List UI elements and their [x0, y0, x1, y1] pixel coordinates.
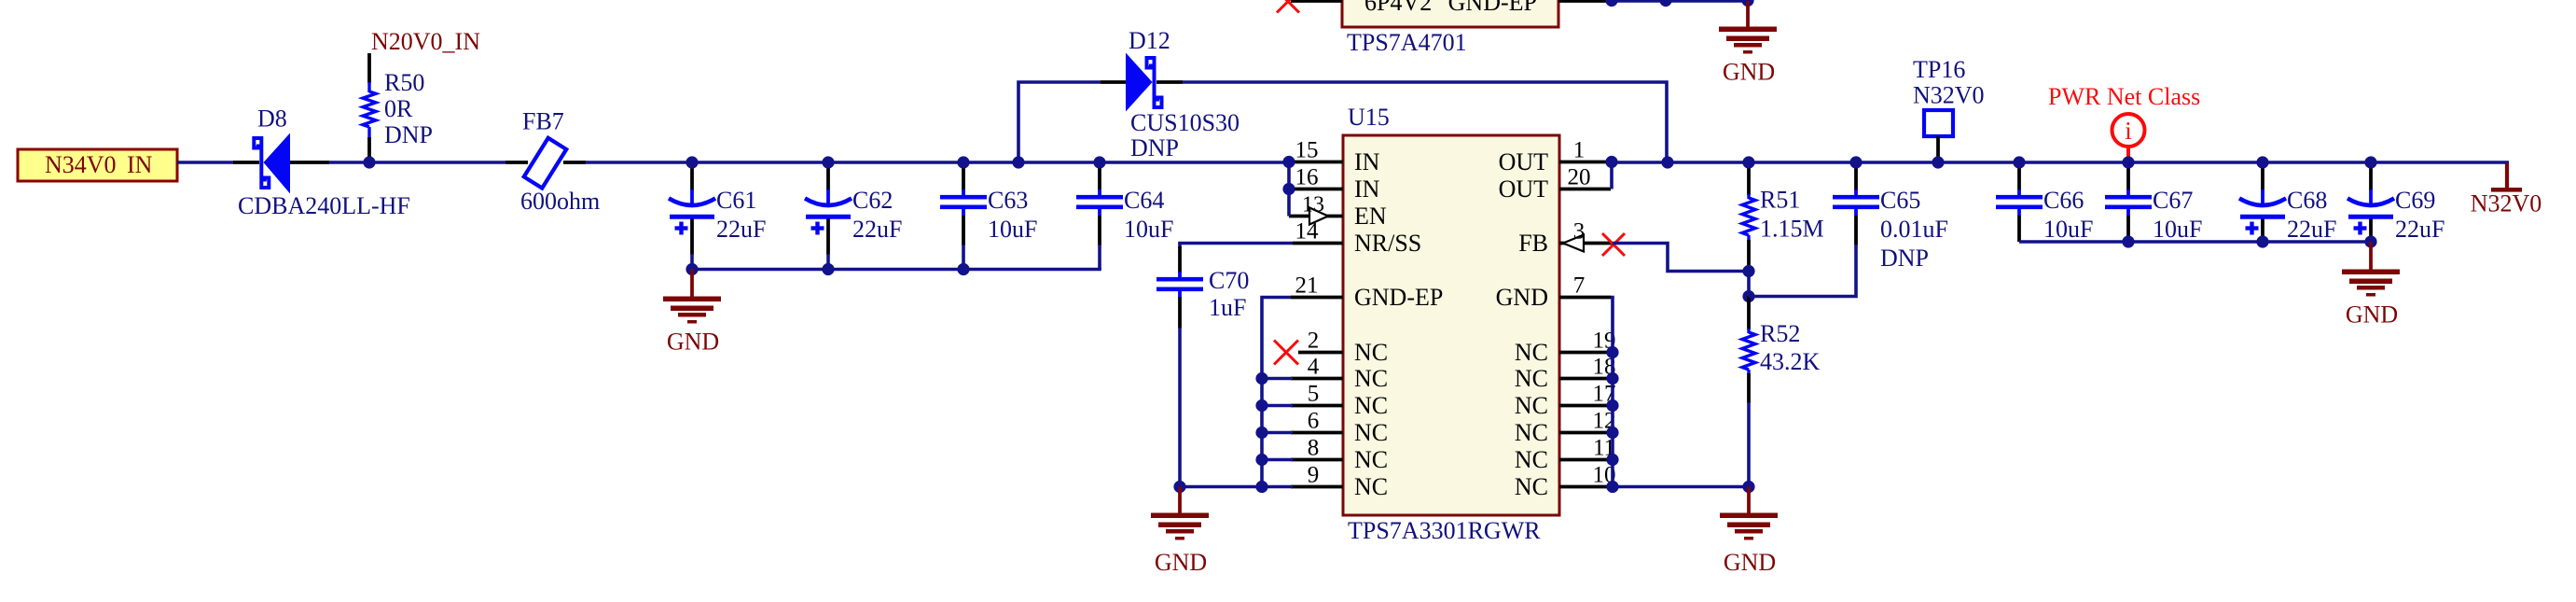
pin 20 OUT of U15 — [1499, 165, 1611, 203]
junction pin 1 / output rail — [1605, 156, 1617, 168]
net label N34V0_IN (input port) — [18, 149, 177, 181]
svg-text:NC: NC — [1515, 392, 1548, 419]
wire GND pin 7 / NC bus (right) — [1611, 298, 1613, 487]
wire stub NC pin 4 — [1262, 377, 1293, 381]
svg-text:C63: C63 — [988, 187, 1028, 214]
pin 16 IN of U15 — [1293, 165, 1380, 203]
capacitor C63 10uF — [940, 163, 1037, 270]
svg-text:9: 9 — [1308, 463, 1320, 488]
pin 17 NC of U15 — [1515, 382, 1616, 420]
svg-text:C66: C66 — [2043, 187, 2084, 214]
svg-text:22uF: 22uF — [716, 216, 766, 243]
svg-text:NR/SS: NR/SS — [1354, 230, 1421, 257]
svg-text:10uF: 10uF — [2153, 216, 2202, 243]
junction C63 / ground bus — [957, 263, 969, 275]
svg-text:TPS7A4701: TPS7A4701 — [1347, 29, 1467, 56]
pin 3 FB of U15 — [1518, 219, 1613, 258]
junction pin 16 tie — [1282, 183, 1295, 195]
svg-text:NC: NC — [1515, 339, 1548, 366]
wire FB to divider — [1613, 244, 1749, 272]
ferrite bead FB7 600ohm — [506, 108, 600, 216]
junction C69 / ground bus (output) — [2364, 235, 2376, 247]
svg-text:0R: 0R — [384, 95, 413, 122]
junction NC pin 5 (left bus) — [1255, 399, 1267, 412]
svg-text:GND: GND — [1723, 59, 1775, 86]
svg-text:1: 1 — [1573, 138, 1586, 163]
pin 13 EN of U15 — [1289, 193, 1387, 231]
junction NC pin 6 (left bus) — [1255, 427, 1267, 439]
svg-text:8: 8 — [1308, 436, 1320, 461]
svg-text:DNP: DNP — [1880, 245, 1929, 272]
svg-text:R52: R52 — [1760, 320, 1800, 347]
junction NC pin 18 (right bus) — [1606, 372, 1618, 385]
wire stub NC pin 9 — [1262, 485, 1293, 489]
pin GND-EP of TPS7A4701 (right pin) — [1558, 0, 1611, 3]
wire IN pins tie (15-16-EN) — [1287, 162, 1291, 217]
wire divider mid node — [1747, 272, 1751, 297]
svg-text:NC: NC — [1515, 419, 1548, 446]
test point TP16 N32V0 — [1913, 56, 1985, 161]
wire NC bus to R52 ground — [1613, 485, 1749, 489]
svg-text:NC: NC — [1354, 419, 1388, 446]
wire stub NC pin 5 — [1262, 404, 1293, 408]
junction C65 return / divider — [1742, 290, 1754, 302]
pin 21 GND-EP of U15 — [1291, 273, 1443, 312]
svg-text:TP16: TP16 — [1913, 56, 1965, 83]
junction C68 / output rail — [2256, 156, 2268, 168]
svg-text:C65: C65 — [1880, 187, 1920, 214]
wire FB7 to input cap bank — [586, 161, 1289, 164]
pin 4 NC of U15 — [1291, 355, 1388, 393]
svg-text:C69: C69 — [2395, 187, 2435, 214]
junction C69 / output rail — [2364, 156, 2376, 168]
no-ERC marker on FB pin 3 — [1602, 233, 1625, 256]
wire GND-EP / NC bus (left) — [1262, 298, 1291, 487]
pin 1 OUT of U15 — [1499, 138, 1611, 176]
svg-text:NC: NC — [1515, 446, 1548, 473]
pin 12 NC of U15 — [1515, 409, 1616, 447]
svg-text:4: 4 — [1308, 355, 1320, 380]
pin 18 NC of U15 — [1515, 355, 1616, 393]
svg-text:13: 13 — [1302, 193, 1324, 217]
resistor R50 0R DNP — [363, 53, 433, 161]
junction NC pin 17 (right bus) — [1606, 399, 1618, 412]
pin 10 NC of U15 — [1515, 463, 1616, 501]
svg-text:R51: R51 — [1760, 187, 1800, 214]
svg-text:OUT: OUT — [1499, 148, 1549, 175]
svg-text:NC: NC — [1354, 473, 1388, 500]
svg-text:FB: FB — [1518, 230, 1548, 257]
svg-text:NC: NC — [1354, 365, 1388, 392]
svg-text:5: 5 — [1308, 382, 1320, 407]
svg-text:C68: C68 — [2287, 187, 2327, 214]
svg-text:20: 20 — [1568, 165, 1591, 190]
junction NC pin 19 (right bus) — [1606, 346, 1618, 358]
wire D8 to R50 node — [329, 161, 506, 164]
svg-text:EN: EN — [1354, 203, 1387, 230]
svg-text:GND-EP: GND-EP — [1448, 0, 1537, 16]
svg-text:OUT: OUT — [1499, 175, 1549, 203]
svg-text:3: 3 — [1573, 219, 1586, 245]
resistor R51 1.15M — [1742, 163, 1824, 270]
pin 7 GND of U15 — [1496, 273, 1611, 312]
diode D12 CUS10S30 DNP (schottky, pointing right) — [1101, 27, 1240, 161]
pin 6P4V2 of TPS7A4701 (left pin, not connected) — [1291, 0, 1342, 3]
junction C65 / output rail — [1849, 156, 1862, 168]
junction D12 bypass / output rail — [1661, 156, 1673, 168]
svg-text:D12: D12 — [1129, 27, 1170, 54]
capacitor C66 10uF — [1996, 163, 2093, 243]
pin 15 IN of U15 — [1293, 138, 1380, 176]
junction pin 15 / main rail — [1282, 156, 1295, 168]
junction at top wire x=1728 — [1605, 0, 1617, 7]
junction C67 / ground bus (output) — [2122, 235, 2134, 247]
ground for output cap bank — [2342, 242, 2400, 329]
svg-text:C67: C67 — [2153, 187, 2193, 214]
svg-text:1uF: 1uF — [1209, 294, 1246, 321]
junction C61 / ground bus — [686, 263, 698, 275]
junction C62 / main rail — [822, 156, 834, 168]
junction TP16 / output rail — [1932, 156, 1944, 168]
svg-text:10uF: 10uF — [988, 216, 1037, 243]
svg-text:IN: IN — [127, 151, 153, 178]
svg-text:NC: NC — [1354, 446, 1388, 473]
junction NC pin 10 / ground bus — [1606, 481, 1618, 493]
parameter set PWR Net Class — [2048, 83, 2200, 160]
svg-text:TPS7A3301RGWR: TPS7A3301RGWR — [1348, 517, 1541, 544]
svg-text:C70: C70 — [1209, 267, 1249, 294]
svg-text:D8: D8 — [257, 105, 287, 133]
svg-text:IN: IN — [1354, 148, 1380, 175]
svg-text:22uF: 22uF — [2395, 216, 2444, 243]
svg-text:R50: R50 — [384, 69, 424, 96]
junction bypass riser / main rail — [1012, 156, 1024, 168]
wire NR/SS to C70 — [1180, 244, 1293, 245]
capacitor C62 22uF (polarized) — [805, 163, 902, 270]
svg-text:10uF: 10uF — [2043, 216, 2093, 243]
junction R51 / output rail — [1742, 156, 1754, 168]
junction NC pin 9 / ground bus — [1255, 481, 1267, 493]
svg-text:N20V0_IN: N20V0_IN — [371, 28, 480, 55]
wire C65 to divider mid node — [1749, 216, 1856, 297]
svg-text:600ohm: 600ohm — [520, 188, 600, 215]
svg-text:7: 7 — [1573, 273, 1586, 299]
wire stub NC pin 6 — [1262, 431, 1293, 435]
pin 8 NC of U15 — [1291, 436, 1388, 474]
diode D8 CDBA240LL-HF (schottky, pointing left) — [233, 105, 410, 220]
junction NC pin 4 (left bus) — [1255, 372, 1267, 385]
svg-text:22uF: 22uF — [2287, 216, 2336, 243]
pin 9 NC of U15 — [1291, 463, 1388, 501]
svg-text:21: 21 — [1295, 273, 1319, 299]
svg-text:N34V0: N34V0 — [45, 151, 117, 178]
pin 14 NR/SS of U15 — [1293, 219, 1421, 258]
svg-text:DNP: DNP — [1130, 134, 1179, 161]
junction NC pin 11 (right bus) — [1606, 454, 1618, 466]
svg-text:FB7: FB7 — [522, 108, 564, 135]
svg-text:6: 6 — [1308, 409, 1320, 434]
capacitor C70 1uF — [1156, 244, 1249, 487]
capacitor C68 22uF (polarized) — [2239, 163, 2336, 243]
wire stub NC pin 8 — [1262, 458, 1293, 462]
ground bus under C61-C64 — [692, 268, 1100, 270]
junction NC pin 12 (right bus) — [1606, 427, 1618, 439]
svg-text:C64: C64 — [1124, 187, 1164, 214]
svg-text:C61: C61 — [716, 187, 756, 214]
capacitor C61 22uF (polarized) — [669, 163, 766, 270]
svg-text:43.2K: 43.2K — [1760, 348, 1821, 375]
pin 19 NC of U15 — [1515, 329, 1616, 367]
IC U15 TPS7A3301RGWR (LDO regulator) — [1343, 104, 1559, 544]
svg-text:C62: C62 — [852, 187, 893, 214]
power port N32V0 (bar style) — [2471, 163, 2542, 217]
wire riser to D12 bypass — [1018, 82, 1101, 162]
svg-text:2: 2 — [1308, 329, 1320, 354]
pin 5 NC of U15 — [1291, 382, 1388, 420]
wire OUT pins tie (1-20) — [1610, 162, 1613, 189]
junction R52 / ground bus — [1742, 481, 1754, 493]
ground for TPS7A4701 — [1719, 1, 1777, 86]
wire C70 ground bus — [1180, 485, 1262, 489]
junction C63 / main rail — [957, 156, 969, 168]
svg-text:N32V0: N32V0 — [2471, 190, 2542, 217]
svg-text:0.01uF: 0.01uF — [1880, 216, 1948, 243]
svg-text:CDBA240LL-HF: CDBA240LL-HF — [238, 192, 410, 219]
svg-text:N32V0: N32V0 — [1913, 82, 1985, 109]
wire D12 to output rail — [1183, 82, 1667, 162]
pin 11 NC of U15 — [1515, 436, 1615, 474]
junction at top wire x=1874 — [1741, 0, 1753, 7]
net label N20V0_IN — [371, 28, 480, 55]
svg-text:GND: GND — [1724, 549, 1776, 576]
junction NC pin 8 (left bus) — [1255, 454, 1267, 466]
wire from TPS7A4701 GND-EP to GND — [1611, 0, 1748, 3]
capacitor C64 10uF — [1076, 163, 1173, 270]
svg-text:GND: GND — [1496, 284, 1548, 311]
svg-text:i: i — [2125, 117, 2132, 145]
no-ERC marker on 6P4V2 pin — [1277, 0, 1299, 13]
junction at top wire x=1786 — [1659, 0, 1671, 7]
junction C61 / main rail — [686, 156, 698, 168]
junction R50 / main rail — [363, 156, 375, 168]
junction C62 / ground bus — [822, 263, 834, 275]
junction FB / divider — [1742, 265, 1754, 277]
svg-text:GND-EP: GND-EP — [1354, 284, 1443, 311]
wire from N34V0_IN to D8 — [177, 161, 234, 164]
capacitor C65 0.01uF DNP — [1833, 163, 1948, 272]
no-ERC marker on NC pin 2 — [1274, 341, 1298, 365]
junction C68 / ground bus (output) — [2256, 235, 2268, 247]
ground for divider — [1720, 487, 1778, 577]
svg-text:PWR Net Class: PWR Net Class — [2048, 83, 2200, 110]
svg-text:NC: NC — [1515, 473, 1548, 500]
svg-text:1.15M: 1.15M — [1760, 216, 1824, 243]
svg-text:15: 15 — [1295, 138, 1319, 163]
svg-text:22uF: 22uF — [852, 216, 902, 243]
svg-text:U15: U15 — [1348, 104, 1390, 131]
junction C64 / main rail — [1093, 156, 1105, 168]
svg-text:GND: GND — [1155, 549, 1207, 576]
capacitor C69 22uF (polarized) — [2347, 163, 2444, 243]
svg-text:IN: IN — [1354, 175, 1380, 203]
svg-text:6P4V2: 6P4V2 — [1364, 0, 1432, 16]
svg-text:16: 16 — [1295, 165, 1319, 190]
junction C66 / output rail — [2013, 156, 2025, 168]
ground for U15 (left) — [1151, 487, 1209, 577]
svg-text:DNP: DNP — [384, 121, 433, 148]
svg-text:GND: GND — [667, 329, 719, 356]
ground bus under C66-C69 — [2019, 240, 2371, 244]
svg-text:NC: NC — [1515, 365, 1548, 392]
svg-text:10uF: 10uF — [1124, 216, 1173, 243]
resistor R52 43.2K — [1742, 297, 1821, 487]
svg-text:CUS10S30: CUS10S30 — [1130, 109, 1240, 136]
svg-text:NC: NC — [1354, 339, 1388, 366]
pin 2 NC of U15 — [1298, 329, 1388, 367]
svg-text:NC: NC — [1354, 392, 1388, 419]
junction C67 / output rail — [2122, 156, 2134, 168]
wire output rail N32V0 — [1611, 161, 2509, 164]
pin 6 NC of U15 — [1291, 409, 1388, 447]
capacitor C67 10uF — [2105, 163, 2202, 243]
junction C70 / ground bus — [1173, 481, 1185, 493]
svg-text:GND: GND — [2346, 301, 2398, 329]
IC TPS7A4701 (partial, cut off at top edge) — [1342, 0, 1558, 56]
ground for input cap bank — [663, 270, 721, 356]
